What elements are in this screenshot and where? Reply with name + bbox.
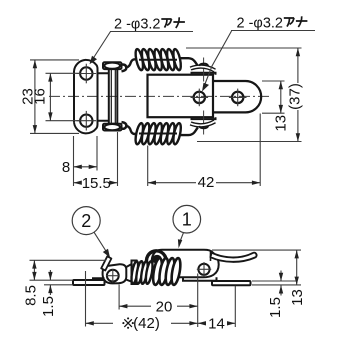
svg-text:2: 2 — [81, 211, 91, 231]
right catch bar side view — [212, 281, 251, 285]
dimension 1.5 right — [252, 271, 297, 318]
svg-text:13: 13 — [289, 289, 306, 306]
body hole left — [191, 89, 209, 107]
dimension 16 — [32, 73, 79, 120]
svg-text:13: 13 — [272, 115, 289, 132]
spring side view small coils — [130, 261, 154, 285]
top spring coils — [134, 48, 182, 70]
left mounting bar side view — [73, 278, 105, 285]
housing bottom flange — [183, 277, 217, 281]
dimension 13 bottom view — [212, 250, 306, 306]
latch loop end cap — [213, 81, 261, 112]
svg-text:20: 20 — [156, 299, 173, 316]
link arm to spring — [126, 261, 137, 285]
plate hole top — [77, 64, 97, 84]
label 2-phi3.2 hole left — [90, 17, 194, 65]
bracket bar — [109, 69, 118, 124]
bracket top flange — [103, 62, 122, 69]
dimension 1.5 left — [40, 270, 73, 317]
dimension (37) — [186, 48, 304, 142]
top rivet tab — [191, 58, 216, 82]
dimension 42 top view — [148, 114, 261, 191]
svg-text:1.5: 1.5 — [40, 296, 57, 317]
label 2-phi3.2 hole right — [202, 16, 315, 92]
plate hole bottom — [77, 111, 97, 131]
svg-text:2 -φ3.2: 2 -φ3.2 — [114, 17, 160, 33]
plate (top view mounting plate) — [74, 60, 109, 134]
top spring right wire to tab — [180, 58, 198, 66]
dimension 14 — [198, 286, 236, 333]
dimension 42 reference bottom — [86, 271, 198, 332]
pivot lobe — [103, 264, 127, 283]
curved latch arm — [211, 253, 257, 262]
dimension 13 top view — [262, 81, 289, 132]
svg-text:1.5: 1.5 — [267, 297, 284, 318]
svg-text:8.5: 8.5 — [23, 285, 40, 306]
svg-text:1: 1 — [182, 210, 192, 230]
hook piece item 2 — [101, 256, 111, 270]
svg-text:16: 16 — [32, 88, 49, 105]
balloon 2 — [72, 207, 110, 258]
dimension 23 — [20, 60, 79, 133]
dimension 15.5 — [74, 132, 118, 192]
body hole right — [229, 89, 247, 107]
svg-text:8: 8 — [62, 159, 70, 176]
bottom spring anchor hook — [121, 122, 139, 134]
svg-text:42: 42 — [198, 174, 215, 191]
housing hole — [197, 262, 211, 276]
bottom spring right wire to tab — [180, 128, 198, 136]
dimension 8 — [62, 136, 97, 186]
bottom spring coils — [134, 123, 182, 145]
svg-text:15.5: 15.5 — [82, 175, 111, 192]
balloon 1 — [173, 205, 201, 248]
spring side view big coils — [151, 257, 182, 285]
body rectangle — [148, 75, 214, 118]
svg-text:2 -φ3.2: 2 -φ3.2 — [237, 16, 283, 32]
dimension 20 — [119, 285, 198, 316]
housing spring curl — [146, 251, 165, 264]
dimension 8.5 — [23, 260, 106, 306]
svg-text:(42): (42) — [133, 315, 160, 332]
pivot circle — [106, 269, 120, 283]
centerline top view — [49, 95, 269, 97]
bottom rivet tab — [191, 111, 216, 135]
svg-text:14: 14 — [208, 316, 225, 333]
svg-text:(37): (37) — [287, 83, 304, 110]
bracket bottom flange — [103, 124, 122, 131]
latch housing item 1 — [152, 250, 219, 277]
top spring anchor hook — [121, 59, 139, 71]
